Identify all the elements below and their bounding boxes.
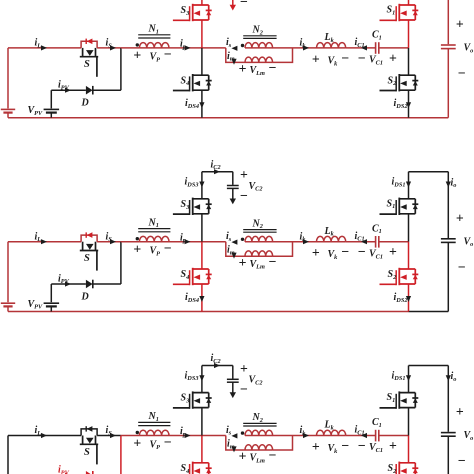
wire main to S2 bbox=[408, 436, 410, 463]
wire S3 drain bbox=[201, 172, 203, 199]
capacitor C2 bottom lead with arrow bbox=[232, 0, 234, 6]
wire left vertical bbox=[7, 436, 9, 474]
svg-text:+: + bbox=[239, 61, 247, 76]
capacitor Co bbox=[441, 44, 456, 46]
svg-text:−: − bbox=[164, 241, 172, 256]
wire bottom rail right bbox=[409, 117, 449, 119]
wire main to S4 bbox=[201, 242, 203, 269]
capacitor C1 bbox=[375, 236, 377, 248]
node N2 polarity dot bbox=[241, 44, 244, 47]
svg-text:+: + bbox=[133, 48, 141, 63]
battery input left plates bbox=[1, 302, 15, 304]
svg-text:−: − bbox=[341, 438, 349, 453]
wire N1 to column bbox=[169, 435, 226, 437]
core N1 bbox=[138, 228, 170, 230]
svg-text:+: + bbox=[133, 242, 141, 257]
wire main to S4 bbox=[201, 436, 203, 463]
winding N1 bbox=[139, 47, 169, 49]
wire iPV horizontal bbox=[51, 89, 86, 91]
inductor Lk bbox=[317, 241, 346, 243]
wire output column lower bbox=[447, 49, 449, 118]
node N2 polarity dot bbox=[241, 238, 244, 241]
wire output column upper bbox=[447, 0, 449, 44]
winding N2 bbox=[245, 47, 273, 49]
svg-text:−: − bbox=[458, 66, 466, 81]
svg-text:−: − bbox=[458, 453, 466, 468]
winding N2 bbox=[245, 241, 273, 243]
svg-text:+: + bbox=[456, 404, 464, 419]
inductor Lk bbox=[317, 47, 346, 49]
wire output column lower bbox=[447, 242, 449, 311]
wire S4 to rail bbox=[201, 90, 203, 118]
wire C1 to column bbox=[379, 47, 409, 49]
wire S1 drain bbox=[408, 366, 410, 393]
wire main top left bbox=[8, 47, 81, 49]
wire S3 drain bbox=[201, 0, 203, 5]
svg-text:+: + bbox=[240, 167, 248, 182]
wire Lk to C1 bbox=[346, 241, 376, 243]
wire node to N1 bbox=[121, 241, 139, 243]
svg-text:+: + bbox=[389, 438, 397, 453]
svg-text:+: + bbox=[312, 51, 320, 66]
wire Lm branch bbox=[226, 436, 245, 451]
wire output column upper bbox=[447, 366, 449, 432]
svg-text:−: − bbox=[358, 244, 366, 259]
mosfet S4 bbox=[193, 268, 209, 270]
wire node down to D bbox=[120, 436, 122, 474]
svg-text:S: S bbox=[84, 447, 90, 458]
mosfet S2 bbox=[399, 268, 415, 270]
wire S3 source to main bbox=[201, 20, 203, 48]
mosfet S1 bbox=[399, 392, 415, 394]
inductor Lm bbox=[245, 449, 273, 451]
svg-text:+: + bbox=[456, 210, 464, 225]
svg-text:−: − bbox=[358, 50, 366, 65]
wire iC2 horizontal bbox=[202, 171, 233, 173]
switch S mosfet channel bbox=[82, 436, 84, 445]
mosfet S2 bbox=[399, 74, 415, 76]
wire S2 to rail bbox=[408, 284, 410, 312]
svg-text:S: S bbox=[84, 253, 90, 264]
circuit interval 3 (bottom) bbox=[1, 353, 474, 474]
wire Lm branch bbox=[226, 48, 245, 63]
svg-text:−: − bbox=[269, 60, 277, 75]
svg-text:−: − bbox=[269, 448, 277, 463]
switch S mosfet channel bbox=[82, 48, 84, 57]
winding N2 bbox=[245, 435, 273, 437]
diode D bbox=[86, 471, 93, 474]
wire S1 source to main bbox=[408, 214, 410, 242]
mosfet S3 bbox=[193, 4, 209, 6]
capacitor C2 bbox=[227, 185, 239, 187]
wire N2 to Lk bbox=[272, 47, 316, 49]
wire top right bbox=[409, 171, 449, 173]
wire top right bbox=[409, 365, 449, 367]
core N2 bbox=[243, 35, 276, 37]
switch S body-diode loop bbox=[81, 429, 97, 436]
svg-text:S: S bbox=[84, 59, 90, 70]
wire main S to node bbox=[97, 47, 121, 49]
switch S mosfet channel bbox=[82, 242, 84, 251]
wire left vertical bbox=[7, 48, 9, 109]
wire left vertical bbox=[7, 242, 9, 303]
svg-text:+: + bbox=[133, 435, 141, 450]
wire N2 to Lk bbox=[272, 241, 316, 243]
node N1 polarity dot bbox=[136, 431, 139, 434]
mosfet S4 bbox=[193, 74, 209, 76]
svg-text:−: − bbox=[240, 382, 248, 397]
core N1 bbox=[138, 34, 170, 36]
wire VPV branch upper bbox=[50, 284, 52, 302]
wire N1 to column bbox=[169, 47, 226, 49]
wire node down to D bbox=[120, 48, 122, 90]
capacitor Co bbox=[441, 432, 456, 434]
wire bottom rail right bbox=[409, 311, 449, 313]
wire C1 to column bbox=[379, 241, 409, 243]
wire main to S4 bbox=[201, 48, 203, 75]
wire bottom rail bbox=[8, 117, 409, 119]
circuit interval 1 (top) bbox=[1, 0, 474, 118]
circuit interval 2 (middle) bbox=[1, 159, 474, 311]
capacitor C2 bottom lead with arrow bbox=[232, 188, 234, 199]
wire node to N1 bbox=[121, 435, 139, 437]
inductor Lm bbox=[245, 61, 273, 63]
wire S3 drain bbox=[201, 366, 203, 393]
wire Lm branch bbox=[226, 242, 245, 257]
svg-text:D: D bbox=[81, 291, 89, 302]
node N2 polarity dot bbox=[241, 431, 244, 434]
svg-text:−: − bbox=[341, 50, 349, 65]
wire main S to node bbox=[97, 241, 121, 243]
wire Lk to C1 bbox=[346, 435, 376, 437]
diode D bbox=[86, 280, 93, 289]
inductor Lk bbox=[317, 435, 346, 437]
wire main top left bbox=[8, 435, 81, 437]
svg-text:−: − bbox=[341, 244, 349, 259]
capacitor C1 bbox=[375, 430, 377, 442]
switch S body-diode loop bbox=[81, 235, 97, 242]
svg-text:−: − bbox=[164, 47, 172, 62]
svg-text:−: − bbox=[240, 0, 248, 9]
capacitor Co bbox=[441, 238, 456, 240]
capacitor C2 bottom lead with arrow bbox=[232, 382, 234, 393]
winding N1 bbox=[139, 241, 169, 243]
wire S1 drain bbox=[408, 0, 410, 5]
svg-text:+: + bbox=[240, 361, 248, 376]
inductor Lm bbox=[245, 255, 273, 257]
svg-text:+: + bbox=[456, 17, 464, 32]
switch S body-diode loop bbox=[81, 41, 97, 48]
svg-text:+: + bbox=[239, 255, 247, 270]
wire C1 to column bbox=[379, 435, 409, 437]
wire iPV horizontal bbox=[51, 283, 86, 285]
wire S3 source to main bbox=[201, 214, 203, 242]
mosfet S3 bbox=[193, 198, 209, 200]
wire iC2 horizontal bbox=[202, 365, 233, 367]
capacitor C2 bbox=[227, 378, 239, 380]
wire S1 source to main bbox=[408, 408, 410, 436]
capacitor C2 top lead bbox=[232, 172, 234, 185]
capacitor C1 bbox=[375, 42, 377, 54]
wire N1 to column bbox=[169, 241, 226, 243]
wire node down to D bbox=[120, 242, 122, 284]
core N2 bbox=[243, 422, 276, 424]
wire bottom rail bbox=[8, 311, 409, 313]
core N2 bbox=[243, 229, 276, 231]
svg-text:−: − bbox=[458, 259, 466, 274]
wire main top left bbox=[8, 241, 81, 243]
wire main to S2 bbox=[408, 48, 410, 75]
svg-text:+: + bbox=[312, 245, 320, 260]
core N1 bbox=[138, 421, 170, 423]
svg-text:D: D bbox=[81, 98, 89, 109]
mosfet S1 bbox=[399, 198, 415, 200]
node N1 polarity dot bbox=[136, 43, 139, 46]
svg-text:+: + bbox=[239, 449, 247, 464]
wire S1 source to main bbox=[408, 20, 410, 48]
svg-text:+: + bbox=[389, 50, 397, 65]
wire output column lower bbox=[447, 436, 449, 474]
battery input left plates bbox=[1, 108, 15, 110]
capacitor C2 top lead bbox=[232, 366, 234, 379]
svg-text:−: − bbox=[240, 188, 248, 203]
wire main S to node bbox=[97, 435, 121, 437]
wire main to S2 bbox=[408, 242, 410, 269]
svg-text:−: − bbox=[269, 254, 277, 269]
wire S4 to rail bbox=[201, 284, 203, 312]
battery VPV bbox=[44, 302, 60, 304]
wire N2 to Lk bbox=[272, 435, 316, 437]
wire S3 source to main bbox=[201, 408, 203, 436]
node N1 polarity dot bbox=[136, 237, 139, 240]
svg-text:−: − bbox=[164, 434, 172, 449]
wire Lk to C1 bbox=[346, 47, 376, 49]
mosfet S2 bbox=[399, 462, 415, 464]
svg-text:−: − bbox=[358, 438, 366, 453]
svg-text:+: + bbox=[312, 439, 320, 454]
wire S2 to rail bbox=[408, 90, 410, 118]
diode D bbox=[86, 86, 93, 95]
mosfet S4 bbox=[193, 462, 209, 464]
svg-text:+: + bbox=[389, 244, 397, 259]
wire output column upper bbox=[447, 172, 449, 238]
battery VPV bbox=[44, 108, 60, 110]
mosfet S1 bbox=[399, 4, 415, 6]
wire node to N1 bbox=[121, 47, 139, 49]
wire VPV branch upper bbox=[50, 90, 52, 108]
winding N1 bbox=[139, 435, 169, 437]
mosfet S3 bbox=[193, 392, 209, 394]
wire S1 drain bbox=[408, 172, 410, 199]
